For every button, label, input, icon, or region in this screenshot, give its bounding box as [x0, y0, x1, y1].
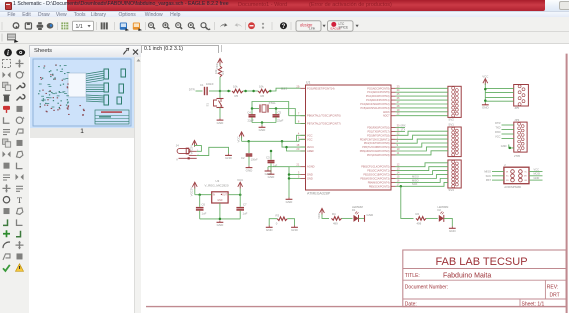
svg-text:J4: J4 — [176, 144, 179, 148]
svg-text:PC2(ADC2/PCINT10): PC2(ADC2/PCINT10) — [366, 95, 390, 98]
svg-text:PC3(ADC3/PCINT11): PC3(ADC3/PCINT11) — [366, 99, 390, 102]
svg-text:10k: 10k — [233, 85, 238, 89]
power jack J4 — [176, 144, 200, 162]
svg-text:XTAL: XTAL — [269, 101, 277, 105]
svg-text:RS: RS — [506, 180, 509, 182]
svg-text:Fabduino Maita: Fabduino Maita — [443, 273, 491, 280]
svg-text:Date:: Date: — [405, 301, 417, 307]
junction regulator gnd — [219, 218, 222, 221]
svg-text:PB3(MOSI/OC2A/PCINT3): PB3(MOSI/OC2A/PCINT3) — [360, 178, 389, 181]
wire rail to VCC pin4 — [297, 135, 306, 141]
svg-text:OUT: OUT — [222, 195, 227, 197]
svg-text:PD7(AIN1/PCINT23): PD7(AIN1/PCINT23) — [367, 154, 390, 157]
svg-text:1uF: 1uF — [202, 212, 207, 216]
svg-text:D2: D2 — [438, 208, 442, 212]
svg-text:1: 1 — [397, 135, 399, 139]
svg-text:DTR: DTR — [189, 87, 195, 91]
title block — [403, 250, 566, 307]
svg-text:PD1(TXD/PCINT17): PD1(TXD/PCINT17) — [368, 130, 390, 133]
svg-text:22pF: 22pF — [248, 119, 255, 123]
svg-text:PB4(MISO/PCINT4): PB4(MISO/PCINT4) — [368, 181, 390, 184]
svg-text:VCC: VCC — [237, 178, 243, 182]
wires U1 port C to SV2 — [396, 88, 448, 115]
svg-text:S1: S1 — [206, 103, 210, 107]
wire SCK node to R2 — [401, 186, 414, 218]
wire VCC5V to U3 IN — [195, 194, 212, 196]
junction node SCK — [400, 185, 403, 188]
svg-text:13: 13 — [397, 167, 400, 171]
wire PD0 stub — [396, 127, 406, 129]
wire regulator bottom rail — [200, 218, 241, 220]
svg-text:GND: GND — [225, 156, 233, 160]
connector SV4 — [448, 160, 461, 192]
svg-text:VCC: VCC — [482, 74, 488, 78]
capacitor C4 — [247, 109, 255, 123]
wire S1 to ground — [219, 108, 221, 119]
svg-text:GN: GN — [524, 180, 527, 182]
ground (S1) — [219, 118, 221, 120]
svg-text:R2: R2 — [416, 212, 420, 216]
power VCC (JP5) — [482, 74, 488, 103]
svg-text:PD6(AIN0/OC0A/PCINT22): PD6(AIN0/OC0A/PCINT22) — [360, 150, 390, 153]
svg-text:MO: MO — [524, 176, 528, 178]
svg-text:U1: U1 — [306, 81, 310, 85]
connector JP5 — [514, 85, 529, 111]
svg-text:2T05: 2T05 — [514, 154, 520, 158]
svg-text:PB0(ICP1/CLKO/PCINT0): PB0(ICP1/CLKO/PCINT0) — [361, 166, 389, 169]
connector JP3 — [514, 118, 527, 158]
svg-text:PD3(PCINT19/OC2B/INT1): PD3(PCINT19/OC2B/INT1) — [360, 138, 390, 141]
LED D2 — [438, 205, 449, 222]
ground (R3 right) — [294, 226, 296, 228]
svg-text:9: 9 — [397, 143, 399, 147]
resistor R2 — [416, 212, 427, 226]
ground (R3 left) — [268, 226, 270, 228]
wires to JP5 — [484, 88, 514, 102]
svg-text:23: 23 — [397, 84, 400, 88]
svg-text:GND: GND — [259, 128, 267, 132]
svg-text:AGND: AGND — [307, 165, 315, 169]
svg-text:C7: C7 — [243, 203, 247, 207]
connector SV1 — [448, 123, 461, 157]
svg-text:AVCC: AVCC — [307, 145, 314, 149]
svg-text:PB5(SCK/PCINT5): PB5(SCK/PCINT5) — [369, 185, 390, 188]
resistor R3 — [276, 214, 288, 226]
wire R2 to D2 — [426, 217, 438, 219]
svg-text:0RX: 0RX — [401, 123, 406, 127]
svg-text:20: 20 — [296, 147, 299, 151]
svg-text:100nF: 100nF — [206, 82, 214, 86]
wire node to S1 — [219, 91, 221, 99]
svg-text:SPICE: SPICE — [339, 25, 349, 29]
svg-text:100nF: 100nF — [251, 159, 258, 162]
svg-text:3: 3 — [298, 171, 300, 175]
svg-text:ATMEGA328P: ATMEGA328P — [307, 192, 331, 196]
svg-text:DRT: DRT — [550, 293, 560, 299]
svg-text:RXD: RXD — [495, 130, 501, 134]
resistor R1 pull-up — [214, 66, 225, 91]
wire U3 GND pin — [219, 203, 221, 219]
power VCC5V (regulator in) — [190, 182, 198, 196]
svg-text:PD0(RXD/PCINT16): PD0(RXD/PCINT16) — [367, 127, 389, 130]
svg-text:GND: GND — [449, 229, 457, 233]
svg-text:GND: GND — [266, 228, 274, 232]
svg-text:DTR: DTR — [495, 121, 500, 125]
ground (JP5) — [484, 103, 486, 105]
svg-text:7: 7 — [298, 112, 300, 116]
ground (J4) — [228, 154, 230, 156]
svg-text:GND: GND — [367, 213, 375, 217]
svg-text:VC: VC — [524, 171, 527, 173]
svg-text:PB6(XTAL1/TOSC1/PCINT6): PB6(XTAL1/TOSC1/PCINT6) — [307, 114, 341, 118]
svg-text:24: 24 — [397, 88, 400, 92]
svg-text:Sheet: 1/1: Sheet: 1/1 — [522, 301, 545, 307]
svg-text:R4: R4 — [332, 212, 336, 216]
svg-text:25: 25 — [397, 92, 400, 96]
svg-text:PC6(/RESET/PCINT14): PC6(/RESET/PCINT14) — [307, 86, 335, 90]
wire R3 right to ground — [287, 219, 294, 226]
capacitor C1 — [200, 82, 214, 95]
svg-text:GND: GND — [307, 176, 313, 180]
LED D1 — [352, 205, 363, 222]
svg-text:PD4(XCK/T0/PCINT20): PD4(XCK/T0/PCINT20) — [364, 142, 390, 145]
ground (C2) — [248, 166, 250, 168]
capacitor C6 — [196, 195, 207, 219]
wire U1 xtal1 pin — [289, 115, 306, 117]
svg-text:4: 4 — [298, 131, 300, 135]
svg-text:GND: GND — [217, 121, 225, 125]
svg-text:JP5: JP5 — [514, 106, 519, 110]
wire node to R5 — [220, 90, 231, 92]
wire DTR to C1 — [196, 90, 203, 92]
svg-text:VCC: VCC — [215, 63, 219, 69]
svg-text:MOSI: MOSI — [534, 172, 541, 176]
svg-text:TITLE:: TITLE: — [405, 273, 420, 279]
resistor R4 — [332, 212, 342, 226]
svg-text:17: 17 — [397, 182, 400, 186]
svg-text:PC0(ADC0/PCINT8): PC0(ADC0/PCINT8) — [367, 87, 389, 90]
svg-text:SC: SC — [506, 176, 509, 178]
capacitor C2 — [241, 141, 258, 166]
svg-text:?: ? — [282, 24, 286, 30]
wire R6 to U1 pin29 — [269, 88, 301, 91]
svg-text:R3: R3 — [276, 214, 280, 218]
wire VCC rail — [242, 139, 306, 141]
svg-text:21: 21 — [296, 163, 299, 167]
svg-text:IN: IN — [213, 195, 216, 197]
svg-text:32: 32 — [397, 131, 400, 135]
svg-text:U3: U3 — [216, 179, 220, 183]
svg-text:PB2(SS/OC1B/PCINT2): PB2(SS/OC1B/PCINT2) — [363, 174, 389, 177]
op-amp U1 — [306, 81, 392, 196]
ground wire (JP3) — [501, 144, 514, 149]
svg-text:27: 27 — [397, 100, 400, 104]
wires U1 port D to SV1 — [396, 131, 448, 155]
wire D1 to ground — [359, 217, 365, 219]
junction C7 tap — [239, 193, 242, 196]
power VCC5V (J4) — [189, 140, 197, 154]
svg-text:T: T — [17, 195, 23, 205]
svg-text:1/1: 1/1 — [76, 24, 83, 30]
svg-text:R6: R6 — [261, 94, 265, 98]
svg-text:19: 19 — [397, 108, 400, 112]
wire xtal left branch — [252, 102, 289, 116]
svg-text:C2: C2 — [241, 156, 245, 160]
ground (xtal) — [259, 123, 267, 133]
svg-text:AREF: AREF — [307, 149, 314, 153]
wire R5 to R6 — [243, 90, 258, 92]
wire xtal bottom rail — [252, 122, 276, 124]
svg-text:D1: D1 — [352, 208, 356, 212]
svg-text:6: 6 — [298, 135, 300, 139]
svg-text:PB1(OC1A/PCINT1): PB1(OC1A/PCINT1) — [367, 170, 389, 173]
svg-text:AVRISPSMD: AVRISPSMD — [504, 185, 521, 189]
svg-text:22pF: 22pF — [277, 119, 284, 123]
svg-text:GND: GND — [501, 144, 507, 148]
wire D2 to ground — [444, 218, 453, 226]
wires ISP left — [484, 170, 504, 183]
svg-text:2: 2 — [504, 163, 506, 167]
capacitor C7 — [236, 195, 247, 219]
svg-text:VCC: VCC — [317, 213, 321, 219]
svg-text:8: 8 — [298, 120, 300, 124]
svg-text:PD5(T1/OC0B/PCINT21): PD5(T1/OC0B/PCINT21) — [362, 146, 389, 149]
U1 right pins — [360, 84, 400, 188]
junction rail — [247, 140, 250, 143]
power VCC (D1) — [317, 208, 329, 219]
wire J4 tip to VCC5V — [195, 145, 202, 152]
wires and net labels JP3 — [495, 121, 514, 139]
svg-text:29: 29 — [296, 84, 299, 88]
wire C1 to node — [209, 90, 220, 92]
svg-text:ADC7: ADC7 — [383, 115, 390, 118]
svg-text:GND: GND — [217, 200, 222, 202]
wire U1 GND pins — [288, 167, 301, 198]
svg-text:SV1: SV1 — [448, 123, 454, 127]
power VCC (R1) — [215, 59, 223, 70]
svg-text:PC4(ADC4/SDA/PCINT12): PC4(ADC4/SDA/PCINT12) — [360, 103, 389, 106]
svg-text:26: 26 — [397, 96, 400, 100]
svg-text:SV2: SV2 — [448, 118, 454, 122]
ground (C3) — [270, 172, 272, 174]
resistor R6 — [258, 85, 269, 99]
svg-text:R5: R5 — [235, 94, 239, 98]
crystal XTAL — [252, 101, 276, 112]
connector SV2 — [448, 86, 461, 121]
svg-text:C1: C1 — [200, 83, 204, 87]
svg-text:MI: MI — [506, 171, 509, 173]
svg-text:R1: R1 — [221, 71, 225, 75]
svg-text:GND: GND — [291, 228, 299, 232]
svg-text:GND: GND — [217, 223, 225, 227]
svg-text:VCC5V: VCC5V — [190, 187, 194, 197]
ground (regulator) — [219, 221, 221, 223]
svg-text:ADC6: ADC6 — [383, 111, 390, 114]
svg-text:MISO: MISO — [484, 170, 491, 174]
svg-text:PC5(ADC5/SCL/PCINT13): PC5(ADC5/SCL/PCINT13) — [361, 107, 390, 110]
svg-text:VCC: VCC — [236, 136, 240, 142]
svg-text:VCC: VCC — [495, 135, 501, 139]
wires U1 port B to SV4 — [396, 163, 448, 187]
svg-text:PC1(ADC1/PCINT9): PC1(ADC1/PCINT9) — [367, 91, 389, 94]
svg-text:18: 18 — [296, 143, 299, 147]
power VCC (U1 rail) — [236, 132, 244, 143]
wire R4 to D1 — [342, 217, 353, 219]
svg-text:GND: GND — [265, 172, 273, 176]
svg-text:REV:: REV: — [547, 285, 558, 291]
junction xtal A — [251, 107, 254, 110]
svg-text:Link: Link — [309, 26, 316, 30]
svg-text:2: 2 — [397, 139, 399, 143]
svg-text:MOSI: MOSI — [412, 174, 419, 178]
svg-text:VCC: VCC — [307, 133, 313, 137]
svg-text:GND: GND — [482, 106, 490, 110]
svg-text:16: 16 — [397, 178, 400, 182]
svg-text:15: 15 — [397, 175, 400, 179]
svg-text:GND: GND — [534, 176, 540, 180]
U1 left pins — [296, 84, 340, 180]
svg-text:10k: 10k — [259, 85, 264, 89]
capacitor C5 — [273, 109, 284, 123]
svg-text:12: 12 — [397, 163, 400, 167]
svg-text:14: 14 — [397, 171, 400, 175]
svg-text:SV4: SV4 — [448, 188, 454, 192]
connector JP2 AVRISP — [504, 163, 529, 189]
svg-text:C5: C5 — [278, 111, 282, 115]
svg-text:VCC5V: VCC5V — [189, 145, 193, 155]
svg-text:SCK: SCK — [486, 174, 492, 178]
power VCC (regulator out) — [237, 178, 243, 195]
svg-text:C3: C3 — [266, 156, 270, 160]
svg-text:499: 499 — [417, 221, 422, 225]
wires ISP right — [529, 167, 543, 180]
junction C6 tap — [198, 193, 201, 196]
svg-text:A: A — [176, 158, 178, 161]
ground (D1, rotated) — [365, 213, 375, 222]
svg-text:Document Number:: Document Number: — [405, 285, 448, 291]
svg-text:i: i — [7, 50, 9, 57]
svg-text:PD2(INT0/PCINT18): PD2(INT0/PCINT18) — [367, 134, 390, 137]
svg-text:VCC: VCC — [534, 167, 540, 171]
svg-text:0: 0 — [276, 222, 278, 226]
frame border right — [566, 54, 568, 313]
svg-text:22: 22 — [397, 112, 400, 116]
wire R3 left to ground — [269, 219, 277, 226]
svg-text:GND: GND — [307, 173, 313, 177]
ground (U1) — [288, 198, 290, 200]
wire U3 OUT — [228, 194, 240, 196]
svg-text:PB7(XTAL2/TOSC2/PCINT7): PB7(XTAL2/TOSC2/PCINT7) — [307, 122, 341, 126]
wire branch AREF — [287, 147, 306, 151]
svg-text:FAB LAB TECSUP: FAB LAB TECSUP — [435, 256, 527, 268]
wire J4 ring to ground — [197, 147, 229, 155]
junction reset node — [219, 90, 222, 93]
svg-text:5: 5 — [298, 174, 300, 178]
svg-text:C4: C4 — [247, 111, 251, 115]
svg-text:499: 499 — [333, 221, 338, 225]
svg-text:JP3: JP3 — [514, 118, 519, 122]
svg-text:GND: GND — [246, 168, 254, 172]
svg-text:28: 28 — [397, 104, 400, 108]
ground (D2) — [451, 227, 453, 229]
svg-text:RST: RST — [486, 178, 492, 182]
junction xtal B — [275, 107, 278, 110]
wire xtal right branch to U1 pin8 — [276, 109, 306, 124]
svg-text:C6: C6 — [202, 203, 206, 207]
svg-text:10: 10 — [397, 147, 400, 151]
svg-text:TXD: TXD — [495, 126, 500, 130]
svg-text:VCC: VCC — [307, 137, 313, 141]
wire PD1 stub — [396, 130, 406, 132]
regulator U3 — [205, 179, 229, 203]
svg-text:1uF: 1uF — [243, 212, 248, 216]
svg-text:11: 11 — [397, 151, 400, 155]
frame border bottom — [146, 306, 566, 308]
wire rail to AVCC — [282, 141, 306, 147]
svg-text:GND: GND — [286, 200, 294, 204]
ground (left agnd) — [265, 167, 289, 176]
resistor R5 — [232, 85, 243, 99]
capacitor C3 — [266, 150, 278, 173]
switch S1 — [206, 99, 224, 108]
svg-text:V_REG_MIC2920: V_REG_MIC2920 — [205, 184, 229, 188]
svg-text:1TX: 1TX — [401, 127, 406, 131]
